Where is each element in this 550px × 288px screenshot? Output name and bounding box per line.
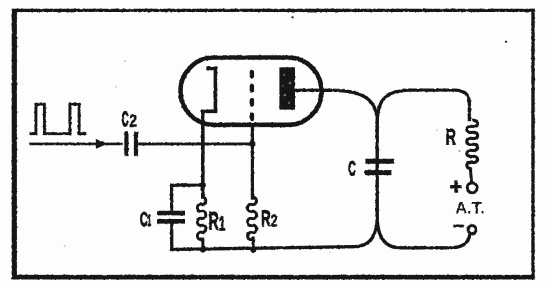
svg-text:2: 2 <box>129 112 137 131</box>
svg-text:2: 2 <box>271 212 278 231</box>
svg-text:A.T.: A.T. <box>455 200 484 218</box>
svg-text:C: C <box>348 157 356 181</box>
svg-text:1: 1 <box>219 212 226 235</box>
svg-text:R: R <box>209 207 219 236</box>
svg-text:R: R <box>446 124 457 149</box>
svg-text:C: C <box>122 106 129 130</box>
svg-text:1: 1 <box>147 212 151 230</box>
svg-text:R: R <box>261 205 271 231</box>
svg-text:C: C <box>140 209 148 231</box>
